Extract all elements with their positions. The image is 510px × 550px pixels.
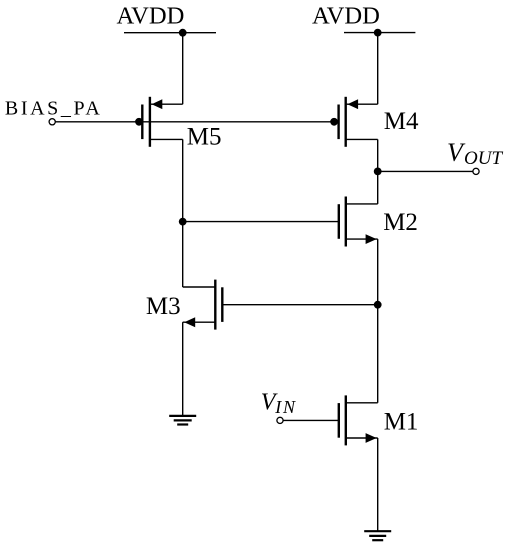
transistor M4 (PMOS) [339, 97, 378, 147]
transistor M1 (NMOS) [339, 395, 378, 445]
wire M3 source down to left ground [182, 322, 184, 415]
junction on left AVDD rail [179, 29, 187, 37]
junction node at M5 drain / M2 gate [179, 218, 187, 226]
terminal VOUT [473, 168, 479, 174]
junction at gate of M5 [135, 118, 143, 126]
wire M2 source down to M1 drain [377, 239, 379, 403]
wire M5 drain down to M3 drain [182, 139, 184, 287]
transistor M3 (NMOS, mirrored) [183, 280, 223, 330]
svg-text:AVDD: AVDD [117, 3, 185, 30]
power rail AVDD (right) [344, 32, 415, 34]
net label VOUT [447, 138, 503, 169]
wire VOUT junction to terminal [378, 170, 473, 172]
transistor M5 (PMOS) [142, 97, 182, 147]
ground (left) [169, 416, 196, 425]
svg-text:M3: M3 [146, 293, 181, 320]
transistor M2 (NMOS) [339, 197, 378, 247]
svg-text:AVDD: AVDD [312, 3, 380, 30]
svg-text:OUT: OUT [464, 148, 503, 169]
junction node VOUT [374, 168, 382, 176]
net label VIN [261, 390, 297, 417]
wire M1 source down to right ground [377, 438, 379, 531]
junction on right AVDD rail [374, 29, 382, 37]
wire gate of M3 to right column [222, 304, 377, 306]
wire junction to gate of M2 [183, 221, 339, 223]
svg-text:M4: M4 [384, 108, 419, 135]
svg-text:BIAS_PA: BIAS_PA [5, 97, 103, 119]
wire BIAS_PA to gates of M5 and M4 [55, 121, 338, 123]
junction node at M3 gate wire / M1 drain [374, 301, 382, 309]
svg-text:M1: M1 [384, 409, 419, 436]
svg-text:M5: M5 [187, 123, 222, 150]
junction at gate of M4 [330, 118, 338, 126]
wire right AVDD dot down to M4 source [377, 33, 379, 105]
wire VIN to gate of M1 [283, 419, 339, 421]
svg-text:M2: M2 [383, 209, 418, 236]
power rail AVDD (left) [124, 32, 216, 34]
ground (right) [364, 531, 391, 540]
wire left AVDD dot down to M5 source [182, 33, 184, 105]
svg-text:IN: IN [274, 397, 297, 417]
wire M4 drain down to M2 drain [377, 139, 379, 204]
terminal VIN [277, 417, 283, 423]
terminal BIAS_PA [49, 119, 55, 125]
